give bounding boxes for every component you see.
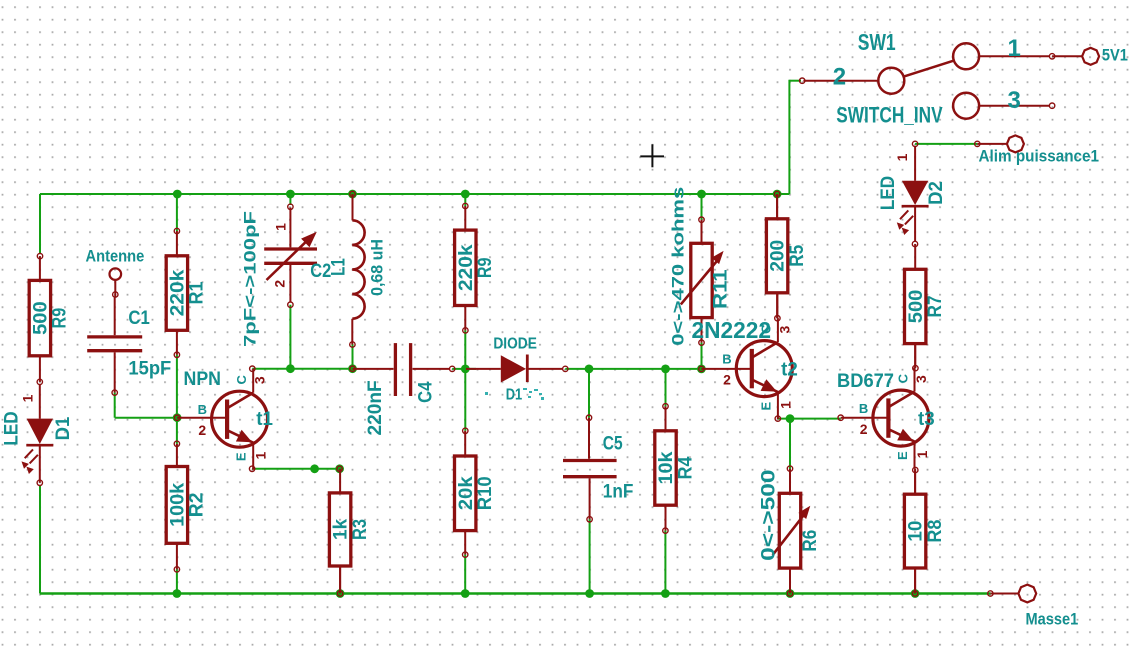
potentiometer R6 <box>759 469 822 594</box>
cursor crosshair <box>640 144 664 167</box>
svg-text:15pF: 15pF <box>128 358 171 379</box>
resistor R9b <box>455 206 497 330</box>
junction R9/R10 node <box>461 365 470 374</box>
svg-text:3: 3 <box>913 375 929 383</box>
wire R11 top drop <box>701 194 703 220</box>
diode D1 <box>466 336 563 404</box>
svg-text:R2: R2 <box>187 493 208 518</box>
transistor t2 (2N2222) <box>722 318 797 419</box>
junction R5 / top rail <box>773 190 782 199</box>
t1 base pin <box>177 417 227 419</box>
wire left rail drop to R9 <box>39 194 41 254</box>
wire R9 bottom drop <box>464 330 466 369</box>
svg-text:2N2222: 2N2222 <box>692 317 772 343</box>
junction R8 / ground rail <box>911 589 920 598</box>
port Alim puissance1 <box>977 135 1099 165</box>
svg-text:10: 10 <box>906 521 927 542</box>
svg-text:500: 500 <box>906 290 927 324</box>
R7 bottom / t3 collector pin stub <box>914 344 916 369</box>
R6 bottom pin stub <box>789 568 791 593</box>
svg-text:3: 3 <box>252 376 268 384</box>
svg-text:1: 1 <box>20 394 36 402</box>
transistor t3 (BD677) <box>859 368 935 469</box>
junction R6 / ground rail <box>786 589 795 598</box>
svg-text:1: 1 <box>914 450 930 458</box>
svg-text:2: 2 <box>860 421 868 437</box>
resistor R1 <box>166 231 208 355</box>
t2 collector / R5 bottom pin stub <box>776 293 778 318</box>
wire C5 bottom to ground rail <box>589 519 591 593</box>
svg-text:5V1: 5V1 <box>1102 46 1128 65</box>
svg-text:1: 1 <box>253 451 269 459</box>
svg-text:C: C <box>895 373 910 383</box>
svg-text:DIODE: DIODE <box>493 336 537 353</box>
svg-text:R6: R6 <box>800 530 821 552</box>
svg-text:D2: D2 <box>926 181 947 205</box>
potentiometer R11 <box>669 187 732 346</box>
wire t1 collector to C2 bottom node <box>252 368 290 370</box>
capacitor C1 <box>87 297 171 393</box>
junction R4 / ground rail <box>661 589 670 598</box>
wire R10 top drop <box>464 369 466 431</box>
svg-text:E: E <box>234 452 249 461</box>
svg-text:t2: t2 <box>781 360 798 381</box>
port 5V1 <box>1052 46 1128 65</box>
wire C1 to base node <box>114 393 116 418</box>
svg-text:100k: 100k <box>168 482 189 526</box>
svg-text:LED: LED <box>878 176 899 210</box>
resistor R3 <box>329 469 371 594</box>
svg-text:2: 2 <box>833 64 846 91</box>
wire R9 (220k) top drop <box>464 194 466 206</box>
junction R3 / ground rail <box>336 589 345 598</box>
R3 bottom pin stub <box>339 566 341 593</box>
junction R9 / top rail <box>461 190 470 199</box>
svg-text:R9: R9 <box>475 257 496 278</box>
wire t1 emitter to R3 <box>252 468 340 470</box>
wire R2 bottom to ground rail <box>176 569 178 593</box>
wire D2 anode to Alim port <box>915 143 977 145</box>
junction emitter wire <box>310 464 319 473</box>
junction t2 base node <box>697 365 706 374</box>
svg-text:1nF: 1nF <box>603 482 634 503</box>
junction R1 / top rail <box>173 190 182 199</box>
junction C5 top node <box>585 365 594 374</box>
svg-text:1: 1 <box>1008 35 1021 62</box>
wire switch feed horizontal <box>789 80 801 82</box>
wire bottom ground rail <box>40 592 990 594</box>
inductor L1 <box>329 194 387 345</box>
svg-text:1k: 1k <box>331 518 352 540</box>
junction t1 base node <box>173 413 182 422</box>
svg-text:SWITCH_INV: SWITCH_INV <box>836 103 943 128</box>
t2 base pin <box>701 368 751 370</box>
junction R4 top node <box>661 365 670 374</box>
svg-text:2: 2 <box>723 371 731 387</box>
resistor R5 <box>766 194 808 318</box>
junction C2 / top rail <box>286 190 295 199</box>
svg-text:D1: D1 <box>506 386 523 403</box>
svg-text:7pF<->100pF: 7pF<->100pF <box>241 211 260 347</box>
LED D1 <box>2 384 74 483</box>
svg-text:E: E <box>895 451 910 460</box>
wire R1 to R2 through base node <box>176 355 178 444</box>
svg-text:B: B <box>722 351 731 366</box>
svg-text:220k: 220k <box>456 244 477 291</box>
switch SW1 (SWITCH_INV) <box>803 29 1050 127</box>
svg-text:B: B <box>198 402 207 417</box>
svg-text:B: B <box>859 401 868 416</box>
resistor R9 <box>29 256 70 382</box>
capacitor C5 <box>563 418 633 520</box>
svg-text:C4: C4 <box>415 381 436 403</box>
svg-text:C: C <box>234 374 249 384</box>
svg-text:Antenne: Antenne <box>86 246 145 265</box>
junction C2 bottom node <box>286 364 295 373</box>
svg-text:SW1: SW1 <box>858 29 896 55</box>
svg-text:220k: 220k <box>168 269 189 316</box>
junction R10 / ground rail <box>461 589 470 598</box>
pin end rings <box>37 54 1055 597</box>
junction L1 / top rail <box>348 190 357 199</box>
transistor t1 (NPN) <box>198 369 274 470</box>
wire t2 emitter node <box>778 418 841 420</box>
wire R1 top drop <box>176 194 178 231</box>
svg-text:R9: R9 <box>50 308 71 329</box>
wire R4 top drop <box>665 369 667 406</box>
svg-text:LED: LED <box>2 411 23 445</box>
svg-text:R4: R4 <box>675 456 696 479</box>
svg-text:1: 1 <box>894 153 910 161</box>
svg-text:R11: R11 <box>711 269 732 309</box>
svg-text:220nF: 220nF <box>365 380 386 435</box>
screen artifact speckles <box>485 388 544 400</box>
R5 top pin stub at rail <box>776 194 778 219</box>
svg-text:0<->470 kohms: 0<->470 kohms <box>669 187 688 346</box>
junction L1 bottom node <box>348 364 357 373</box>
capacitor C4 <box>353 343 450 435</box>
svg-text:3: 3 <box>776 325 792 333</box>
resistor R10 <box>455 431 497 555</box>
svg-text:C5: C5 <box>603 433 623 454</box>
junction R3 top <box>335 464 344 473</box>
svg-text:R7: R7 <box>925 295 946 317</box>
wire R4 bottom to ground rail <box>664 531 666 594</box>
wire R10 bottom to ground rail <box>464 555 466 594</box>
svg-text:0<->500: 0<->500 <box>759 470 780 561</box>
wire C2 top drop <box>289 194 291 205</box>
resistor R4 <box>655 406 697 530</box>
svg-text:R10: R10 <box>475 476 496 510</box>
svg-text:R1: R1 <box>187 281 208 304</box>
svg-text:BD677: BD677 <box>837 371 894 392</box>
svg-text:1: 1 <box>777 401 793 409</box>
svg-text:3: 3 <box>1008 87 1021 114</box>
svg-text:NPN: NPN <box>184 369 222 390</box>
wire switch feed vertical <box>788 80 790 194</box>
svg-text:L1: L1 <box>329 258 350 276</box>
svg-text:Masse1: Masse1 <box>1026 609 1079 628</box>
svg-text:1: 1 <box>273 223 289 231</box>
junction t2 emitter node <box>786 414 795 423</box>
svg-text:2: 2 <box>272 280 288 288</box>
wire top supply rail <box>40 193 789 195</box>
resistor R7 <box>905 244 947 368</box>
svg-text:R5: R5 <box>787 244 808 266</box>
wire R11 bottom drop <box>701 343 703 369</box>
svg-text:0,68 uH: 0,68 uH <box>368 239 387 296</box>
wire R6 top drop <box>789 419 791 469</box>
svg-text:20k: 20k <box>456 476 477 510</box>
wire L1 bottom drop <box>352 345 354 369</box>
wire D1 cathode to ground rail <box>39 486 41 594</box>
junction R2 / ground rail <box>173 589 182 598</box>
svg-text:2: 2 <box>198 422 206 438</box>
resistor R2 <box>166 444 208 570</box>
resistor R8 <box>904 470 946 593</box>
svg-text:D1: D1 <box>53 416 74 440</box>
svg-text:R3: R3 <box>350 519 371 540</box>
svg-text:t3: t3 <box>918 409 935 430</box>
wire C5 top drop <box>588 369 590 418</box>
svg-text:10k: 10k <box>656 451 677 484</box>
svg-text:Alim puissance1: Alim puissance1 <box>979 147 1100 166</box>
t3 base pin <box>841 417 889 419</box>
svg-text:t1: t1 <box>256 409 273 430</box>
wire C4 right to R9/R10 node <box>452 368 476 370</box>
R8 bottom pin stub <box>914 568 916 593</box>
variable capacitor C2 <box>241 208 332 348</box>
t3 emitter / R8 top pin stub <box>914 469 916 495</box>
svg-text:C1: C1 <box>128 308 150 329</box>
wire C2 node to L1 node <box>290 368 352 370</box>
svg-text:500: 500 <box>31 301 52 335</box>
port Masse1 (ground) <box>990 585 1078 629</box>
LED D2 <box>878 147 947 242</box>
wire C2 bottom drop <box>289 305 291 369</box>
junction C5 / ground rail <box>585 589 594 598</box>
svg-text:R8: R8 <box>925 520 946 543</box>
junction R11 / top rail <box>697 190 706 199</box>
wire diode cathode to t2 base <box>565 368 701 370</box>
svg-text:E: E <box>758 402 773 411</box>
svg-text:200: 200 <box>768 240 789 272</box>
port Antenne <box>86 246 145 297</box>
